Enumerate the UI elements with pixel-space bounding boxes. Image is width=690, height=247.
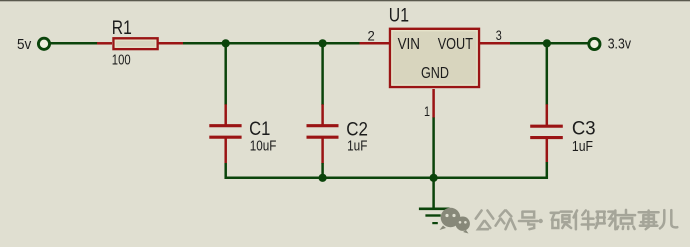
硬	[551, 212, 572, 228]
capacitor C3 lead lower (red)	[546, 137, 549, 163]
svg-text:2: 2	[368, 29, 375, 45]
wire: U1 pin 2 stub (red)	[360, 42, 391, 45]
点	[617, 210, 635, 229]
svg-text:VOUT: VOUT	[438, 36, 474, 53]
svg-text:GND: GND	[421, 65, 449, 82]
件	[574, 210, 594, 229]
svg-text:C1: C1	[249, 118, 270, 140]
svg-text:3: 3	[496, 28, 502, 44]
capacitor C3 plates	[530, 126, 563, 137]
resistor R1	[114, 38, 158, 49]
capacitor C1 lead upper (red)	[224, 104, 227, 126]
watermark wechat icon	[440, 208, 470, 234]
svg-text:C3: C3	[572, 117, 596, 139]
capacitor C3 branch wire upper (green)	[546, 43, 549, 105]
junction dot node C (VOUT/C3)	[543, 39, 551, 47]
junction dot node A (R1/C1)	[222, 39, 230, 47]
capacitor C1 lead lower (red)	[224, 137, 227, 164]
svg-text:3.3v: 3.3v	[608, 37, 632, 53]
svg-text:1uF: 1uF	[572, 139, 593, 155]
svg-text:1uF: 1uF	[347, 139, 368, 155]
wire: R1 left pin stub (red)	[97, 42, 112, 45]
IC U1 voltage regulator body	[390, 29, 479, 87]
那	[595, 210, 615, 229]
junction dot C2 on bus	[319, 174, 327, 182]
capacitor C1 plates	[209, 126, 241, 138]
号	[519, 212, 538, 230]
terminal: 3.3v output	[589, 38, 600, 49]
svg-text:R1: R1	[112, 17, 132, 39]
众	[496, 210, 516, 229]
terminal: 5v input	[38, 38, 49, 49]
svg-text:100: 100	[112, 53, 131, 69]
svg-text:C2: C2	[346, 118, 368, 140]
wire: R1 to U1 pin 2 (green)	[183, 42, 361, 45]
wire: U1 pin 1 stub (red)	[432, 89, 435, 118]
junction dot GND on bus	[430, 174, 438, 182]
·	[539, 219, 543, 223]
svg-text:10uF: 10uF	[250, 139, 277, 155]
wire: R1 right pin stub (red)	[158, 42, 183, 45]
wire: U1 pin 3 stub (red)	[479, 42, 511, 45]
watermark text 公众号·硬件那点事儿 (drawn glyphs)	[476, 210, 678, 229]
capacitor C2 plates	[307, 126, 339, 138]
儿	[660, 210, 677, 228]
wire: U1 pin 3 to 3.3v terminal (green)	[510, 42, 589, 45]
svg-text:U1: U1	[389, 5, 409, 27]
capacitor C3 wire to ground bus (green)	[546, 162, 549, 179]
wire: 5v terminal to R1 (green)	[50, 42, 98, 45]
svg-text:VIN: VIN	[398, 36, 420, 53]
ground bus wire (green)	[225, 177, 549, 180]
capacitor C1 wire to ground bus (green)	[226, 163, 230, 178]
svg-text:5v: 5v	[17, 37, 32, 53]
ground symbol	[419, 209, 450, 223]
capacitor C2 lead lower (red)	[321, 137, 324, 164]
capacitor C3 lead upper (red)	[546, 104, 549, 127]
svg-text:1: 1	[424, 104, 430, 120]
wire: U1 pin 1 to ground bus (green)	[432, 118, 435, 180]
公	[476, 210, 494, 229]
wire: bus to ground symbol (green)	[432, 178, 435, 209]
capacitor C1 branch wire upper (green)	[224, 43, 227, 105]
capacitor C2 branch wire upper (green)	[321, 43, 324, 105]
事	[639, 210, 659, 229]
capacitor C2 lead upper (red)	[321, 104, 324, 126]
junction dot node B (C2)	[319, 39, 327, 47]
capacitor C2 wire to ground bus (green)	[321, 163, 324, 178]
